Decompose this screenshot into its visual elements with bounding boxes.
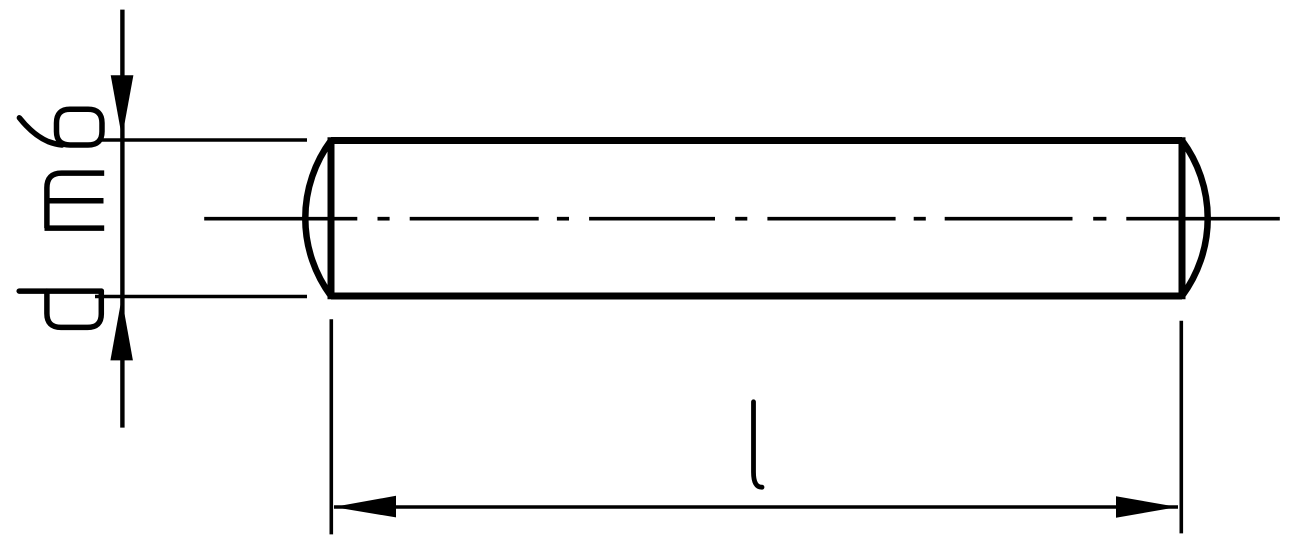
pin body outline (cylindrical dowel pin, side view) xyxy=(331,137,1182,299)
label "6" of rotated text "d m6" xyxy=(19,109,102,145)
centerline (dash-dot axis) xyxy=(204,217,1280,221)
pin left crowned end arc xyxy=(305,141,331,297)
extension line right (length) xyxy=(1180,321,1184,534)
extension line left (length) xyxy=(329,319,333,534)
diameter arrow bottom (pointing up) xyxy=(110,298,132,360)
length arrow right (pointing right) xyxy=(1116,496,1178,518)
diameter dimension line (vertical) xyxy=(120,10,124,428)
extension line bottom (diameter) xyxy=(95,295,307,298)
label "m" of rotated text "d m6" xyxy=(45,173,105,228)
length arrow left (pointing left) xyxy=(334,496,397,518)
label "d" of rotated text "d m6" xyxy=(19,291,101,327)
pin right crowned end arc xyxy=(1182,141,1208,297)
extension line top (diameter) xyxy=(99,138,307,141)
length dimension line (horizontal) xyxy=(334,505,1178,509)
diameter arrow top (pointing down) xyxy=(111,75,134,137)
label "l" (length) xyxy=(754,402,763,487)
